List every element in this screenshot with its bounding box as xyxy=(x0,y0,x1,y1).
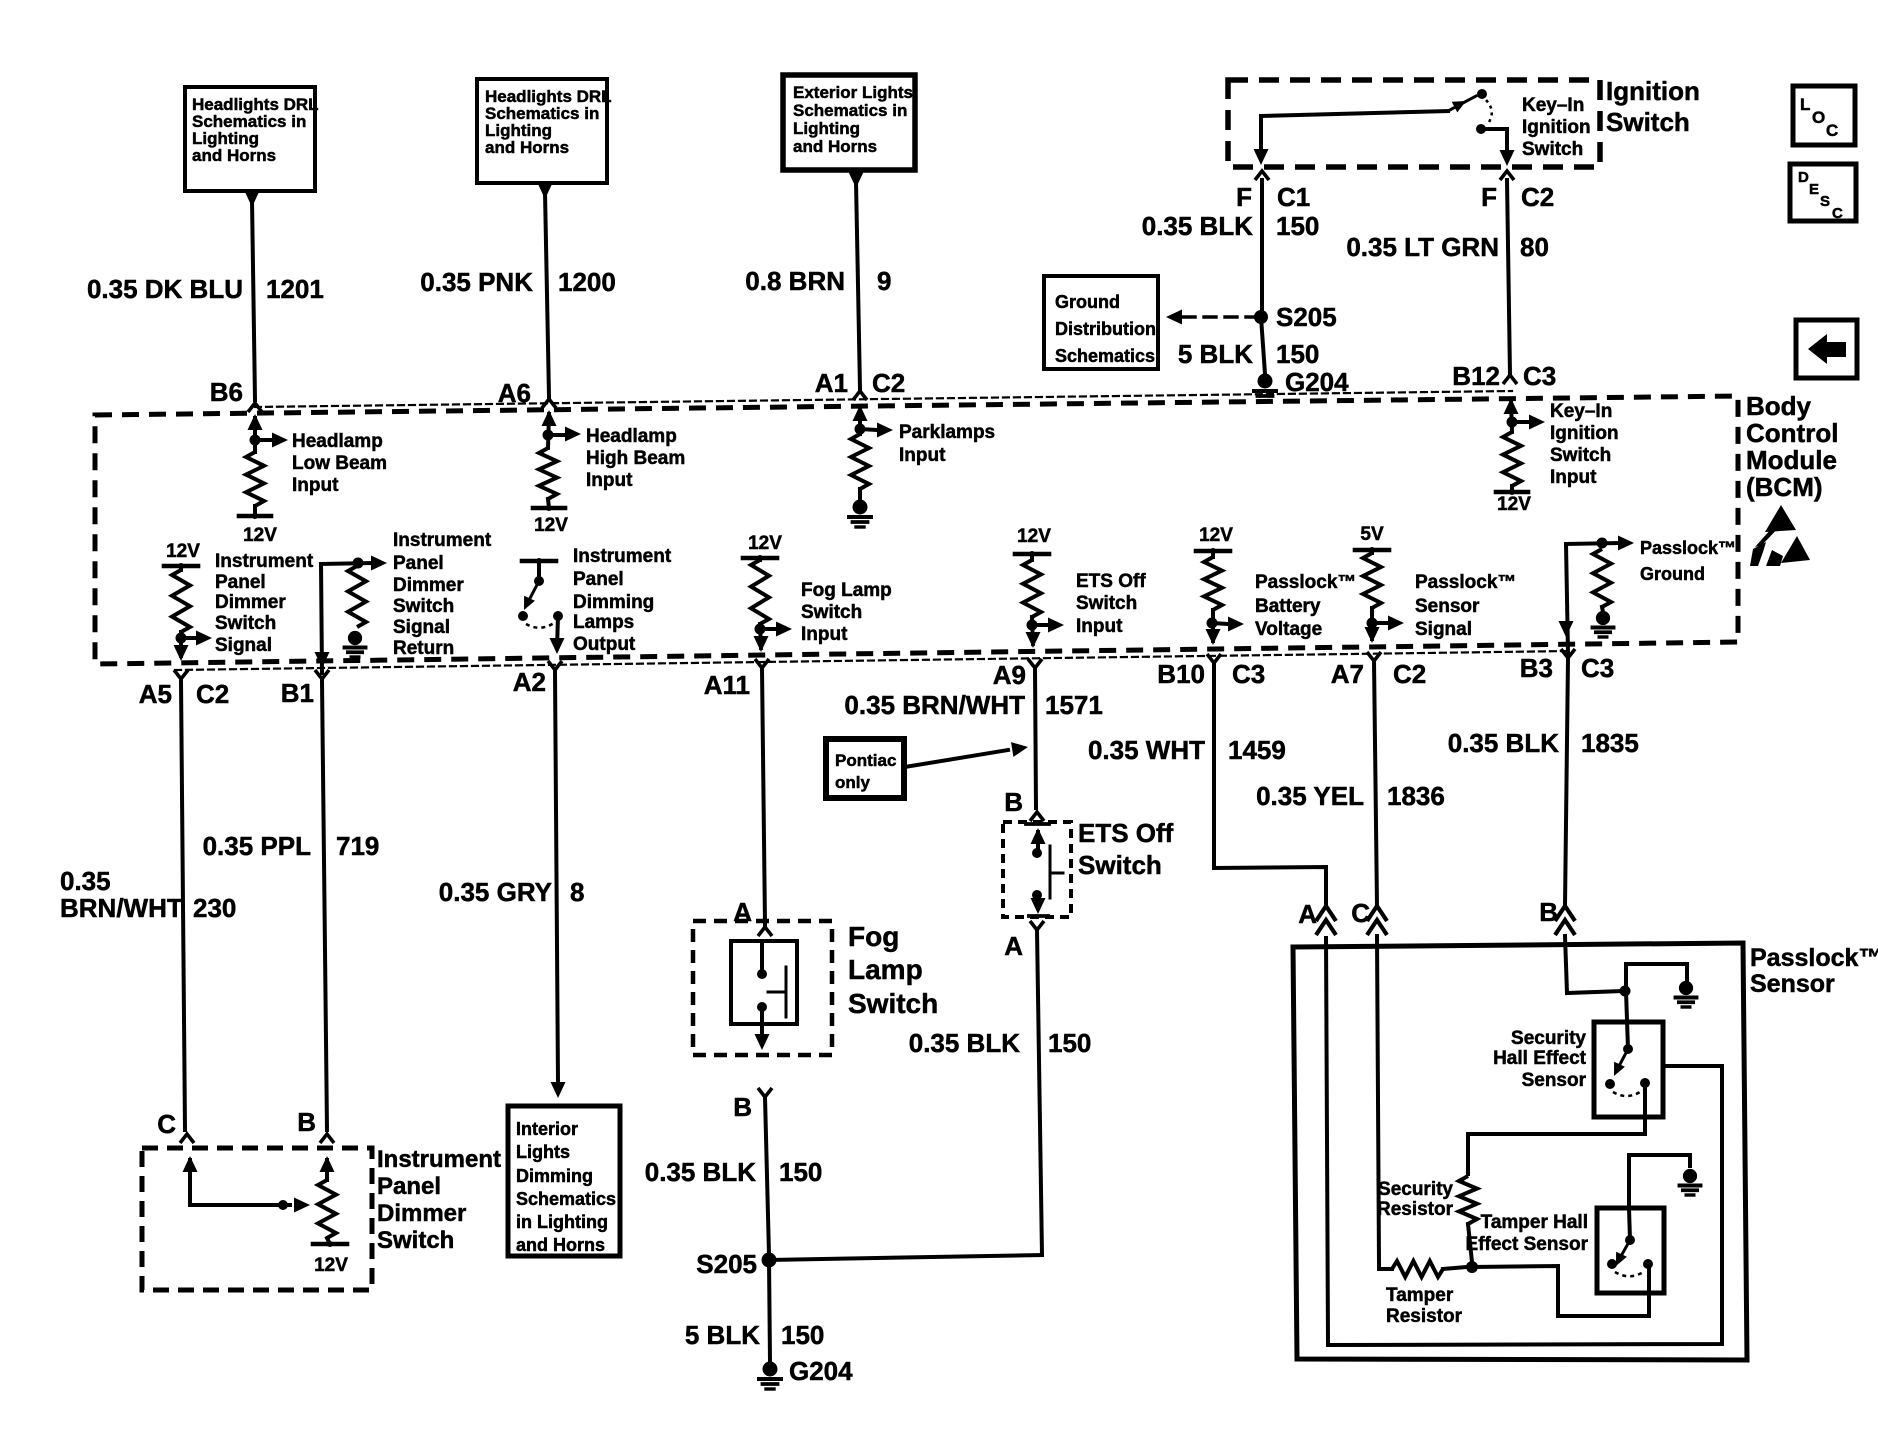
svg-text:80: 80 xyxy=(1520,232,1549,262)
pin B10 connector C3 xyxy=(1207,654,1221,663)
svg-text:D: D xyxy=(1798,169,1809,186)
svg-text:B12: B12 xyxy=(1452,361,1500,391)
wire security sensor output to security resistor xyxy=(1468,1083,1645,1176)
svg-text:0.35 BLK: 0.35 BLK xyxy=(1448,728,1559,758)
svg-text:0.35 DK BLU: 0.35 DK BLU xyxy=(87,274,243,304)
svg-text:0.8 BRN: 0.8 BRN xyxy=(745,266,845,296)
pin F connector C2 xyxy=(1500,171,1514,180)
svg-text:Module: Module xyxy=(1746,445,1837,475)
wire 0.35 PPL 719 from BCM B1 to dimmer switch pin B xyxy=(322,681,327,1130)
pin A7 connector C2 xyxy=(1367,652,1381,661)
svg-text:Signal: Signal xyxy=(1415,619,1472,640)
svg-text:Schematics: Schematics xyxy=(1055,346,1155,366)
pin F connector C1 xyxy=(1255,171,1269,180)
svg-text:Switch: Switch xyxy=(393,596,454,617)
svg-text:and Horns: and Horns xyxy=(192,146,276,165)
svg-text:Interior: Interior xyxy=(516,1119,578,1139)
svg-text:and Horns: and Horns xyxy=(793,137,877,156)
dashed reference arrow from S205 to Ground Distribution Schematics xyxy=(1183,315,1253,318)
svg-text:12V: 12V xyxy=(748,533,782,554)
svg-text:ETS Off: ETS Off xyxy=(1076,571,1146,592)
svg-text:Input: Input xyxy=(586,470,633,491)
svg-text:Switch: Switch xyxy=(1606,107,1690,137)
svg-text:Hall Effect: Hall Effect xyxy=(1493,1048,1587,1069)
svg-text:12V: 12V xyxy=(534,515,568,536)
dotted travel arc xyxy=(1486,100,1492,125)
ground inside passlock (tamper sensor) xyxy=(1683,1169,1697,1183)
svg-text:1459: 1459 xyxy=(1228,735,1286,765)
ground inside BCM (passlock ground) xyxy=(1596,611,1610,625)
svg-text:150: 150 xyxy=(1276,339,1319,369)
fog lamp switch dashed box xyxy=(693,921,832,1055)
box: Headlights DRL Schematics in Lighting and Horns (middle) xyxy=(477,79,607,183)
contact dot lower xyxy=(1476,124,1486,134)
svg-text:Dimmer: Dimmer xyxy=(393,575,464,596)
ETS off switch contacts xyxy=(1026,822,1049,826)
ignition switch dashed box xyxy=(1228,80,1600,167)
wire passlock pin B to security sensor common and ground xyxy=(1565,936,1567,993)
BCM input headlamp low beam: pin arrow, node, pull-up resistor to 12V xyxy=(248,414,263,430)
svg-text:Headlamp: Headlamp xyxy=(586,426,677,447)
svg-text:Key–In: Key–In xyxy=(1522,95,1584,116)
svg-text:Instrument: Instrument xyxy=(573,546,672,567)
wire passlock supply loop from pin A around box to security sensor xyxy=(1326,936,1722,1345)
svg-text:Sensor: Sensor xyxy=(1750,970,1835,998)
svg-text:only: only xyxy=(835,773,870,792)
wire node to security sensor input xyxy=(1626,991,1628,1049)
svg-text:Exterior Lights: Exterior Lights xyxy=(793,83,913,102)
splice S205 (upper) xyxy=(1254,310,1268,324)
pin A9 connector xyxy=(1028,659,1042,668)
switch arm key-in ignition switch xyxy=(1448,96,1476,111)
svg-text:150: 150 xyxy=(1048,1028,1091,1058)
svg-text:1835: 1835 xyxy=(1581,728,1639,758)
svg-text:S205: S205 xyxy=(696,1249,757,1279)
svg-text:Switch: Switch xyxy=(1076,593,1137,614)
svg-text:Instrument: Instrument xyxy=(215,551,314,572)
svg-text:Dimming: Dimming xyxy=(516,1166,593,1186)
svg-text:Switch: Switch xyxy=(1078,850,1162,880)
svg-text:C: C xyxy=(1826,121,1838,140)
svg-text:B6: B6 xyxy=(210,377,243,407)
tamper hall effect sensor box xyxy=(1597,1208,1664,1293)
pin B6 connector xyxy=(248,403,262,412)
svg-text:Headlamp: Headlamp xyxy=(292,431,383,452)
svg-text:Ignition: Ignition xyxy=(1606,76,1700,106)
svg-text:Passlock™: Passlock™ xyxy=(1640,538,1736,558)
svg-text:0.35 BLK: 0.35 BLK xyxy=(909,1028,1020,1058)
svg-text:Dimming: Dimming xyxy=(573,592,654,613)
wire 0.35 BLK 150 from ignition switch to S205 xyxy=(1260,180,1264,311)
svg-text:Tamper: Tamper xyxy=(1386,1285,1454,1306)
svg-text:Resistor: Resistor xyxy=(1377,1199,1454,1220)
contact dot upper xyxy=(1477,89,1487,99)
BCM input headlamp high beam: pin arrow, node, pull-up resistor to 12V xyxy=(542,410,557,426)
svg-text:S205: S205 xyxy=(1276,302,1337,332)
icon box DESC xyxy=(1790,164,1856,221)
wire 5 BLK 150 from S205 to G204 xyxy=(1261,317,1265,374)
ground G204 (lower) xyxy=(763,1362,778,1377)
svg-text:F: F xyxy=(1236,182,1252,212)
svg-text:S: S xyxy=(1820,193,1830,210)
wire 5 BLK 150 from S205 to G204 xyxy=(769,1260,770,1362)
tamper resistor xyxy=(1392,1261,1443,1277)
wire S205 to ETS off switch leg xyxy=(769,1255,1042,1260)
svg-text:Instrument: Instrument xyxy=(377,1146,501,1173)
svg-text:(BCM): (BCM) xyxy=(1746,472,1823,502)
svg-text:C: C xyxy=(1351,898,1370,928)
BCM output instrument panel dimming lamps: 12V supply and switch xyxy=(522,559,556,564)
wire from lower contact to pin F C2 xyxy=(1481,127,1507,131)
wire 0.35 BLK 1835 from BCM B3 to passlock sensor pin B xyxy=(1565,658,1568,906)
svg-text:Passlock™: Passlock™ xyxy=(1255,572,1356,593)
svg-text:Sensor: Sensor xyxy=(1415,596,1480,617)
svg-text:Panel: Panel xyxy=(377,1173,441,1200)
ground inside passlock (security sensor) xyxy=(1679,981,1693,995)
svg-text:150: 150 xyxy=(1276,211,1319,241)
icon box back-arrow xyxy=(1796,320,1857,378)
box: Exterior Lights Schematics in Lighting and Horns xyxy=(783,75,915,170)
svg-text:A2: A2 xyxy=(513,667,546,697)
svg-text:Low Beam: Low Beam xyxy=(292,453,387,474)
svg-text:C3: C3 xyxy=(1523,361,1556,391)
svg-text:Fog Lamp: Fog Lamp xyxy=(801,580,892,601)
svg-text:0.35 WHT: 0.35 WHT xyxy=(1088,735,1205,765)
svg-text:Passlock™: Passlock™ xyxy=(1415,572,1516,593)
svg-text:Panel: Panel xyxy=(573,569,624,590)
svg-text:A: A xyxy=(1298,899,1317,929)
ground inside BCM (parklamps) xyxy=(853,500,868,515)
svg-text:Control: Control xyxy=(1746,418,1838,448)
svg-text:Battery: Battery xyxy=(1255,596,1321,617)
svg-text:Pontiac: Pontiac xyxy=(835,751,896,770)
svg-text:Input: Input xyxy=(1076,616,1123,637)
BCM passlock ground: wire, node, resistor to ground xyxy=(1566,544,1568,653)
svg-text:Lamps: Lamps xyxy=(573,612,634,633)
pin B1 connector xyxy=(315,670,329,679)
svg-text:1836: 1836 xyxy=(1387,781,1445,811)
svg-text:B: B xyxy=(1539,897,1558,927)
svg-text:0.35 BLK: 0.35 BLK xyxy=(1142,211,1253,241)
svg-text:12V: 12V xyxy=(243,525,277,546)
svg-text:C2: C2 xyxy=(1521,182,1554,212)
svg-text:Security: Security xyxy=(1378,1179,1453,1200)
svg-text:Input: Input xyxy=(292,475,339,496)
svg-text:Body: Body xyxy=(1746,391,1812,421)
svg-text:A6: A6 xyxy=(498,378,531,408)
svg-text:C2: C2 xyxy=(1393,659,1426,689)
icon box LOC xyxy=(1793,86,1855,145)
ETS off switch actuator xyxy=(1049,846,1052,898)
passlock sensor box xyxy=(1293,943,1747,1360)
connector C2 dotted line (top) xyxy=(255,391,1512,407)
svg-text:Ignition: Ignition xyxy=(1550,423,1619,444)
pin A2 connector xyxy=(548,661,562,670)
svg-text:Schematics in: Schematics in xyxy=(793,101,907,120)
svg-text:A: A xyxy=(1004,931,1023,961)
svg-text:ETS Off: ETS Off xyxy=(1078,818,1174,848)
svg-text:Panel: Panel xyxy=(393,553,444,574)
connector dotted line (bottom) xyxy=(175,651,1570,670)
svg-text:Switch: Switch xyxy=(215,613,276,634)
svg-text:and Horns: and Horns xyxy=(485,138,569,157)
wire 0.35 BRN/WHT 1571 from BCM A9 to ETS off switch pin B xyxy=(1035,668,1036,808)
svg-text:A9: A9 xyxy=(993,660,1026,690)
fog lamp switch pin B connector xyxy=(758,1088,772,1097)
ETS off switch pin A connector xyxy=(1030,921,1044,930)
svg-text:1201: 1201 xyxy=(266,274,324,304)
svg-text:Input: Input xyxy=(899,445,946,466)
svg-text:8: 8 xyxy=(570,877,584,907)
ground G204 (upper) xyxy=(1258,374,1273,389)
svg-text:B: B xyxy=(297,1107,316,1137)
svg-text:O: O xyxy=(1812,108,1825,127)
instrument panel dimmer switch dashed box xyxy=(142,1148,372,1290)
svg-text:9: 9 xyxy=(877,266,891,296)
svg-text:High Beam: High Beam xyxy=(586,448,685,469)
svg-text:B10: B10 xyxy=(1157,659,1205,689)
svg-text:E: E xyxy=(1809,181,1819,198)
svg-text:C2: C2 xyxy=(196,679,229,709)
svg-text:Ignition: Ignition xyxy=(1522,117,1591,138)
wire 0.35 WHT 1459 from BCM B10 to passlock sensor pin A xyxy=(1214,663,1326,906)
svg-text:Output: Output xyxy=(573,634,636,655)
security hall effect sensor box xyxy=(1594,1022,1663,1117)
junction tamper resistor / security resistor xyxy=(1466,1261,1478,1273)
svg-text:Input: Input xyxy=(801,624,848,645)
wire 0.35 PNK 1200 from Headlights DRL box to BCM pin A6 xyxy=(538,183,553,199)
wire 0.35 BLK 150 from fog lamp switch to S205 xyxy=(765,1097,769,1255)
svg-text:B3: B3 xyxy=(1520,653,1553,683)
svg-text:12V: 12V xyxy=(314,1255,348,1276)
wire 0.35 BRN/WHT 230 from BCM A5 to dimmer switch pin C xyxy=(181,681,185,1130)
pin A11 connector xyxy=(755,659,769,668)
svg-text:Distribution: Distribution xyxy=(1055,319,1156,339)
box: Headlights DRL Schematics in Lighting and Horns (left) xyxy=(185,87,315,191)
wire ignition switch common feed xyxy=(1261,111,1448,116)
fog lamp switch actuator xyxy=(785,967,788,1017)
svg-text:150: 150 xyxy=(779,1157,822,1187)
wire from BCM A11 to fog lamp switch pin A xyxy=(762,668,765,925)
wire tamper sensor common to ground xyxy=(1629,1155,1690,1208)
svg-text:Passlock™: Passlock™ xyxy=(1750,944,1878,972)
svg-text:1200: 1200 xyxy=(558,267,616,297)
svg-text:Resistor: Resistor xyxy=(1386,1306,1463,1327)
svg-text:C3: C3 xyxy=(1232,659,1265,689)
svg-text:Switch: Switch xyxy=(377,1227,454,1254)
pin A5 connector C2 xyxy=(174,670,188,679)
svg-text:0.35 GRY: 0.35 GRY xyxy=(439,877,552,907)
Body Control Module BCM dashed outline xyxy=(95,396,1738,664)
svg-text:Lighting: Lighting xyxy=(793,119,860,138)
svg-text:Dimmer: Dimmer xyxy=(215,592,286,613)
box: Interior Lights Dimming Schematics in Lighting and Horns xyxy=(508,1106,620,1256)
svg-text:Voltage: Voltage xyxy=(1255,619,1322,640)
svg-text:5 BLK: 5 BLK xyxy=(685,1320,760,1350)
svg-text:G204: G204 xyxy=(789,1356,853,1386)
svg-text:0.35 YEL: 0.35 YEL xyxy=(1256,781,1364,811)
fog lamp switch contact box xyxy=(731,941,797,1024)
tamper hall effect sensor switch xyxy=(1629,1208,1630,1240)
svg-text:Dimmer: Dimmer xyxy=(377,1200,466,1227)
dimmer switch wiper arm wire xyxy=(183,1156,198,1172)
svg-text:Effect Sensor: Effect Sensor xyxy=(1466,1234,1589,1255)
box: Ground Distribution Schematics xyxy=(1044,276,1158,369)
pin B3 connector C3 xyxy=(1561,649,1575,658)
svg-text:Fog: Fog xyxy=(848,921,899,952)
ground inside BCM (signal return) xyxy=(348,631,362,645)
splice S205 (lower) xyxy=(762,1253,777,1268)
pin A6 connector xyxy=(542,399,556,408)
svg-text:719: 719 xyxy=(336,831,379,861)
svg-text:Lights: Lights xyxy=(516,1142,570,1162)
svg-text:Switch: Switch xyxy=(1550,445,1611,466)
reference arrow from Pontiac only box to wire 1571 xyxy=(905,750,1008,767)
svg-text:and Horns: and Horns xyxy=(516,1235,605,1255)
svg-text:L: L xyxy=(1800,95,1810,114)
svg-text:C2: C2 xyxy=(872,368,905,398)
svg-text:C: C xyxy=(157,1109,176,1139)
svg-text:Instrument: Instrument xyxy=(393,530,492,551)
svg-text:0.35 PNK: 0.35 PNK xyxy=(420,267,533,297)
wire 0.35 YEL 1836 from BCM A7 to passlock sensor pin C xyxy=(1374,661,1377,906)
BCM input dimmer switch signal return: wire, resistor to ground, arrow xyxy=(321,564,322,673)
svg-text:12V: 12V xyxy=(1497,494,1531,515)
svg-text:Key–In: Key–In xyxy=(1550,401,1612,422)
svg-text:A11: A11 xyxy=(704,670,750,700)
svg-text:Schematics: Schematics xyxy=(516,1189,616,1209)
svg-text:Ground: Ground xyxy=(1640,564,1705,584)
svg-text:A1: A1 xyxy=(815,368,848,398)
svg-text:150: 150 xyxy=(781,1320,824,1350)
svg-text:Signal: Signal xyxy=(215,635,272,656)
svg-text:0.35 PPL: 0.35 PPL xyxy=(203,831,312,861)
svg-text:C: C xyxy=(1832,205,1843,222)
svg-text:5V: 5V xyxy=(1360,524,1384,545)
svg-text:Lamp: Lamp xyxy=(848,954,923,985)
fog lamp switch contacts xyxy=(760,941,764,974)
svg-text:Return: Return xyxy=(393,638,454,659)
ETS off switch dashed box xyxy=(1003,822,1071,917)
svg-text:12V: 12V xyxy=(1017,526,1051,547)
svg-text:A5: A5 xyxy=(139,679,172,709)
wire 0.35 LT GRN 80 from ignition switch to BCM pin B12 xyxy=(1507,180,1510,375)
wire passlock pin C to tamper resistor xyxy=(1377,936,1379,1264)
svg-text:BRN/WHT: BRN/WHT xyxy=(60,893,183,923)
svg-text:Panel: Panel xyxy=(215,572,266,593)
svg-text:Switch: Switch xyxy=(801,602,862,623)
svg-text:12V: 12V xyxy=(166,541,200,562)
svg-text:A7: A7 xyxy=(1331,659,1364,689)
wire 0.35 BLK 150 from ETS off switch to S205 xyxy=(1037,930,1042,1255)
dimmer switch potentiometer resistor to 12V xyxy=(320,1156,335,1172)
BCM input parklamps: pin arrow, node, resistor to ground xyxy=(853,405,868,421)
svg-text:12V: 12V xyxy=(1199,525,1233,546)
svg-text:230: 230 xyxy=(193,893,236,923)
svg-text:C3: C3 xyxy=(1581,653,1614,683)
svg-text:1571: 1571 xyxy=(1045,690,1103,720)
svg-text:0.35 BRN/WHT: 0.35 BRN/WHT xyxy=(844,690,1025,720)
svg-text:Signal: Signal xyxy=(393,617,450,638)
security resistor xyxy=(1459,1176,1477,1224)
wire 0.35 GRY 8 from BCM A2 to interior lights dimming schematics xyxy=(555,672,558,1083)
svg-text:Switch: Switch xyxy=(848,988,938,1019)
svg-text:Parklamps: Parklamps xyxy=(899,422,995,443)
security hall effect sensor switch xyxy=(1623,1044,1633,1054)
svg-text:Input: Input xyxy=(1550,467,1597,488)
BCM input key-in ignition switch: pin arrow, node, resistor to 12V xyxy=(1504,398,1519,414)
svg-text:B: B xyxy=(1004,787,1023,817)
svg-text:0.35 LT GRN: 0.35 LT GRN xyxy=(1346,232,1499,262)
wire 0.35 DK BLU 1201 from Headlights DRL box to BCM pin B6 xyxy=(245,191,260,207)
svg-text:Sensor: Sensor xyxy=(1522,1070,1587,1091)
svg-text:F: F xyxy=(1481,182,1497,212)
svg-text:Ground: Ground xyxy=(1055,292,1120,312)
svg-text:in Lighting: in Lighting xyxy=(516,1212,608,1232)
svg-text:0.35: 0.35 xyxy=(60,866,111,896)
svg-text:0.35 BLK: 0.35 BLK xyxy=(645,1157,756,1187)
svg-text:B: B xyxy=(733,1092,752,1122)
svg-text:C1: C1 xyxy=(1277,182,1310,212)
pin B12 connector C3 xyxy=(1503,375,1517,384)
ESD sensitivity symbol xyxy=(1765,505,1796,532)
box: Pontiac only xyxy=(826,739,904,798)
pin A1 connector C2 xyxy=(853,391,867,400)
svg-text:5 BLK: 5 BLK xyxy=(1178,339,1253,369)
svg-text:Switch: Switch xyxy=(1522,139,1583,160)
wire junction to tamper sensor contact xyxy=(1472,1264,1649,1316)
svg-text:Security: Security xyxy=(1511,1028,1586,1049)
wire 0.8 BRN 9 from Exterior Lights box to BCM pin A1 xyxy=(849,172,864,188)
svg-text:Tamper Hall: Tamper Hall xyxy=(1481,1212,1588,1233)
svg-text:B1: B1 xyxy=(281,678,314,708)
